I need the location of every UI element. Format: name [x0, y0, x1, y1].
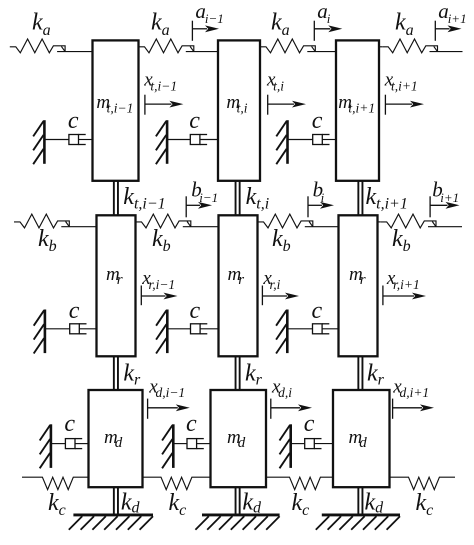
arrow x_d,i	[271, 399, 300, 419]
mass m_t,i−1 (top row col1)	[93, 40, 139, 180]
ground under m_d col1	[69, 515, 153, 530]
arrow a_i	[314, 21, 330, 41]
spring k_a 4 (m_t,i+1 to right edge)	[382, 39, 462, 53]
spring k_r vertical link col1	[114, 354, 118, 392]
svg-text:c: c	[68, 108, 79, 134]
mass m_t,i+1 (top row col3)	[336, 40, 379, 180]
spring k_b 1 (left edge to m_r col1)	[14, 214, 97, 228]
mass m_t,i (top row col2)	[218, 40, 260, 180]
arrow b_i	[308, 196, 322, 217]
svg-text:c: c	[186, 411, 197, 437]
damper c middle row col2	[167, 324, 218, 334]
spring k_d vertical link col2	[236, 485, 240, 515]
wall anchor middle row col1	[34, 310, 45, 354]
arrow x_r,i+1	[383, 286, 414, 306]
arrow x_d,i+1	[393, 399, 422, 419]
damper c bottom row col2	[173, 439, 210, 449]
wall anchor top row col2	[156, 120, 167, 164]
svg-text:c: c	[69, 298, 80, 324]
spring k_t,i+1 vertical link col3	[358, 179, 362, 218]
arrow b_i+1	[430, 196, 447, 217]
mass m_d (bottom row col2)	[211, 390, 267, 487]
spring k_b 2 (m_r col1 to m_r col2)	[136, 214, 219, 228]
spring k_d vertical link col3	[358, 485, 362, 515]
arrow x_t,i-1	[145, 95, 172, 115]
arrow x_r,i-1	[141, 286, 165, 306]
wire stub right of m_t,i+1	[379, 46, 382, 48]
wall anchor bottom row col1	[40, 424, 51, 468]
mass m_d (bottom row col3)	[333, 390, 390, 487]
mass m_r (middle row col1)	[97, 215, 136, 356]
arrow x_t,i	[268, 95, 294, 115]
wall anchor middle row col2	[156, 310, 167, 354]
damper c top row col1	[44, 135, 92, 145]
damper c middle row col3	[287, 324, 338, 334]
svg-text:bi: bi	[313, 178, 325, 206]
svg-text:c: c	[312, 298, 323, 324]
damper c middle row col1	[45, 324, 97, 334]
svg-text:c: c	[312, 108, 323, 134]
spring k_r vertical link col3	[358, 354, 362, 392]
mass m_d (bottom row col1)	[89, 390, 143, 487]
wall anchor top row col3	[276, 120, 287, 164]
spring k_a 2 (m_t,i-1 to m_t,i)	[139, 39, 219, 53]
svg-text:c: c	[64, 411, 75, 437]
spring k_a 1 (left edge to m_t,i-1)	[10, 39, 93, 53]
spring k_b 3 (m_r col2 to m_r col3)	[258, 214, 339, 228]
wall anchor bottom row col3	[280, 424, 291, 468]
svg-text:c: c	[304, 411, 315, 437]
ground under m_d col2	[195, 515, 279, 530]
spring k_r vertical link col2	[236, 354, 240, 392]
spring k_t,i−1 vertical link col1	[114, 179, 118, 218]
ground under m_d col3	[316, 515, 400, 530]
wire stub right of m_r col3	[378, 221, 381, 223]
wall anchor top row col1	[33, 120, 44, 164]
spring k_c 1 (left edge to m_d col1)	[22, 477, 89, 489]
arrow x_d,i-1	[148, 399, 178, 419]
spring k_c 2 (m_d col1 to m_d col2)	[143, 477, 211, 489]
mass m_r (middle row col3)	[339, 215, 378, 356]
wall anchor bottom row col2	[162, 424, 173, 468]
arrow b_i-1	[186, 196, 200, 217]
damper c top row col3	[288, 135, 337, 145]
arrow a_i-1	[192, 21, 207, 41]
spring k_c 3 (m_d col2 to m_d col3)	[266, 477, 333, 489]
wall anchor middle row col3	[276, 310, 287, 354]
arrow x_r,i	[262, 286, 287, 306]
spring k_t,i vertical link col2	[236, 179, 240, 218]
arrow x_t,i+1	[385, 95, 412, 115]
damper c bottom row col3	[291, 439, 333, 449]
spring k_d vertical link col1	[114, 485, 118, 515]
arrow a_i+1	[435, 21, 449, 41]
damper c top row col2	[167, 135, 218, 145]
spring k_c 4 (m_d col3 to right edge)	[390, 477, 456, 489]
damper c bottom row col1	[51, 439, 89, 449]
spring k_a 3 (m_t,i to m_t,i+1)	[260, 39, 336, 53]
spring k_b 4 (m_r col3 to right edge)	[381, 214, 462, 228]
svg-text:c: c	[189, 108, 200, 134]
svg-text:c: c	[190, 298, 201, 324]
mass m_r (middle row col2)	[219, 215, 258, 356]
